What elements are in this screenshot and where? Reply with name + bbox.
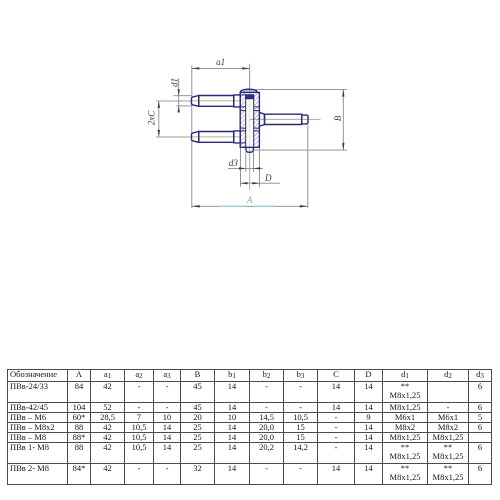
- svg-text:2xC: 2xC: [147, 110, 157, 125]
- svg-text:d3: d3: [229, 158, 239, 168]
- svg-text:d1: d1: [170, 78, 180, 87]
- svg-text:B: B: [333, 115, 343, 121]
- svg-text:a1: a1: [216, 57, 225, 67]
- svg-text:A: A: [246, 195, 253, 205]
- svg-text:D: D: [264, 173, 272, 183]
